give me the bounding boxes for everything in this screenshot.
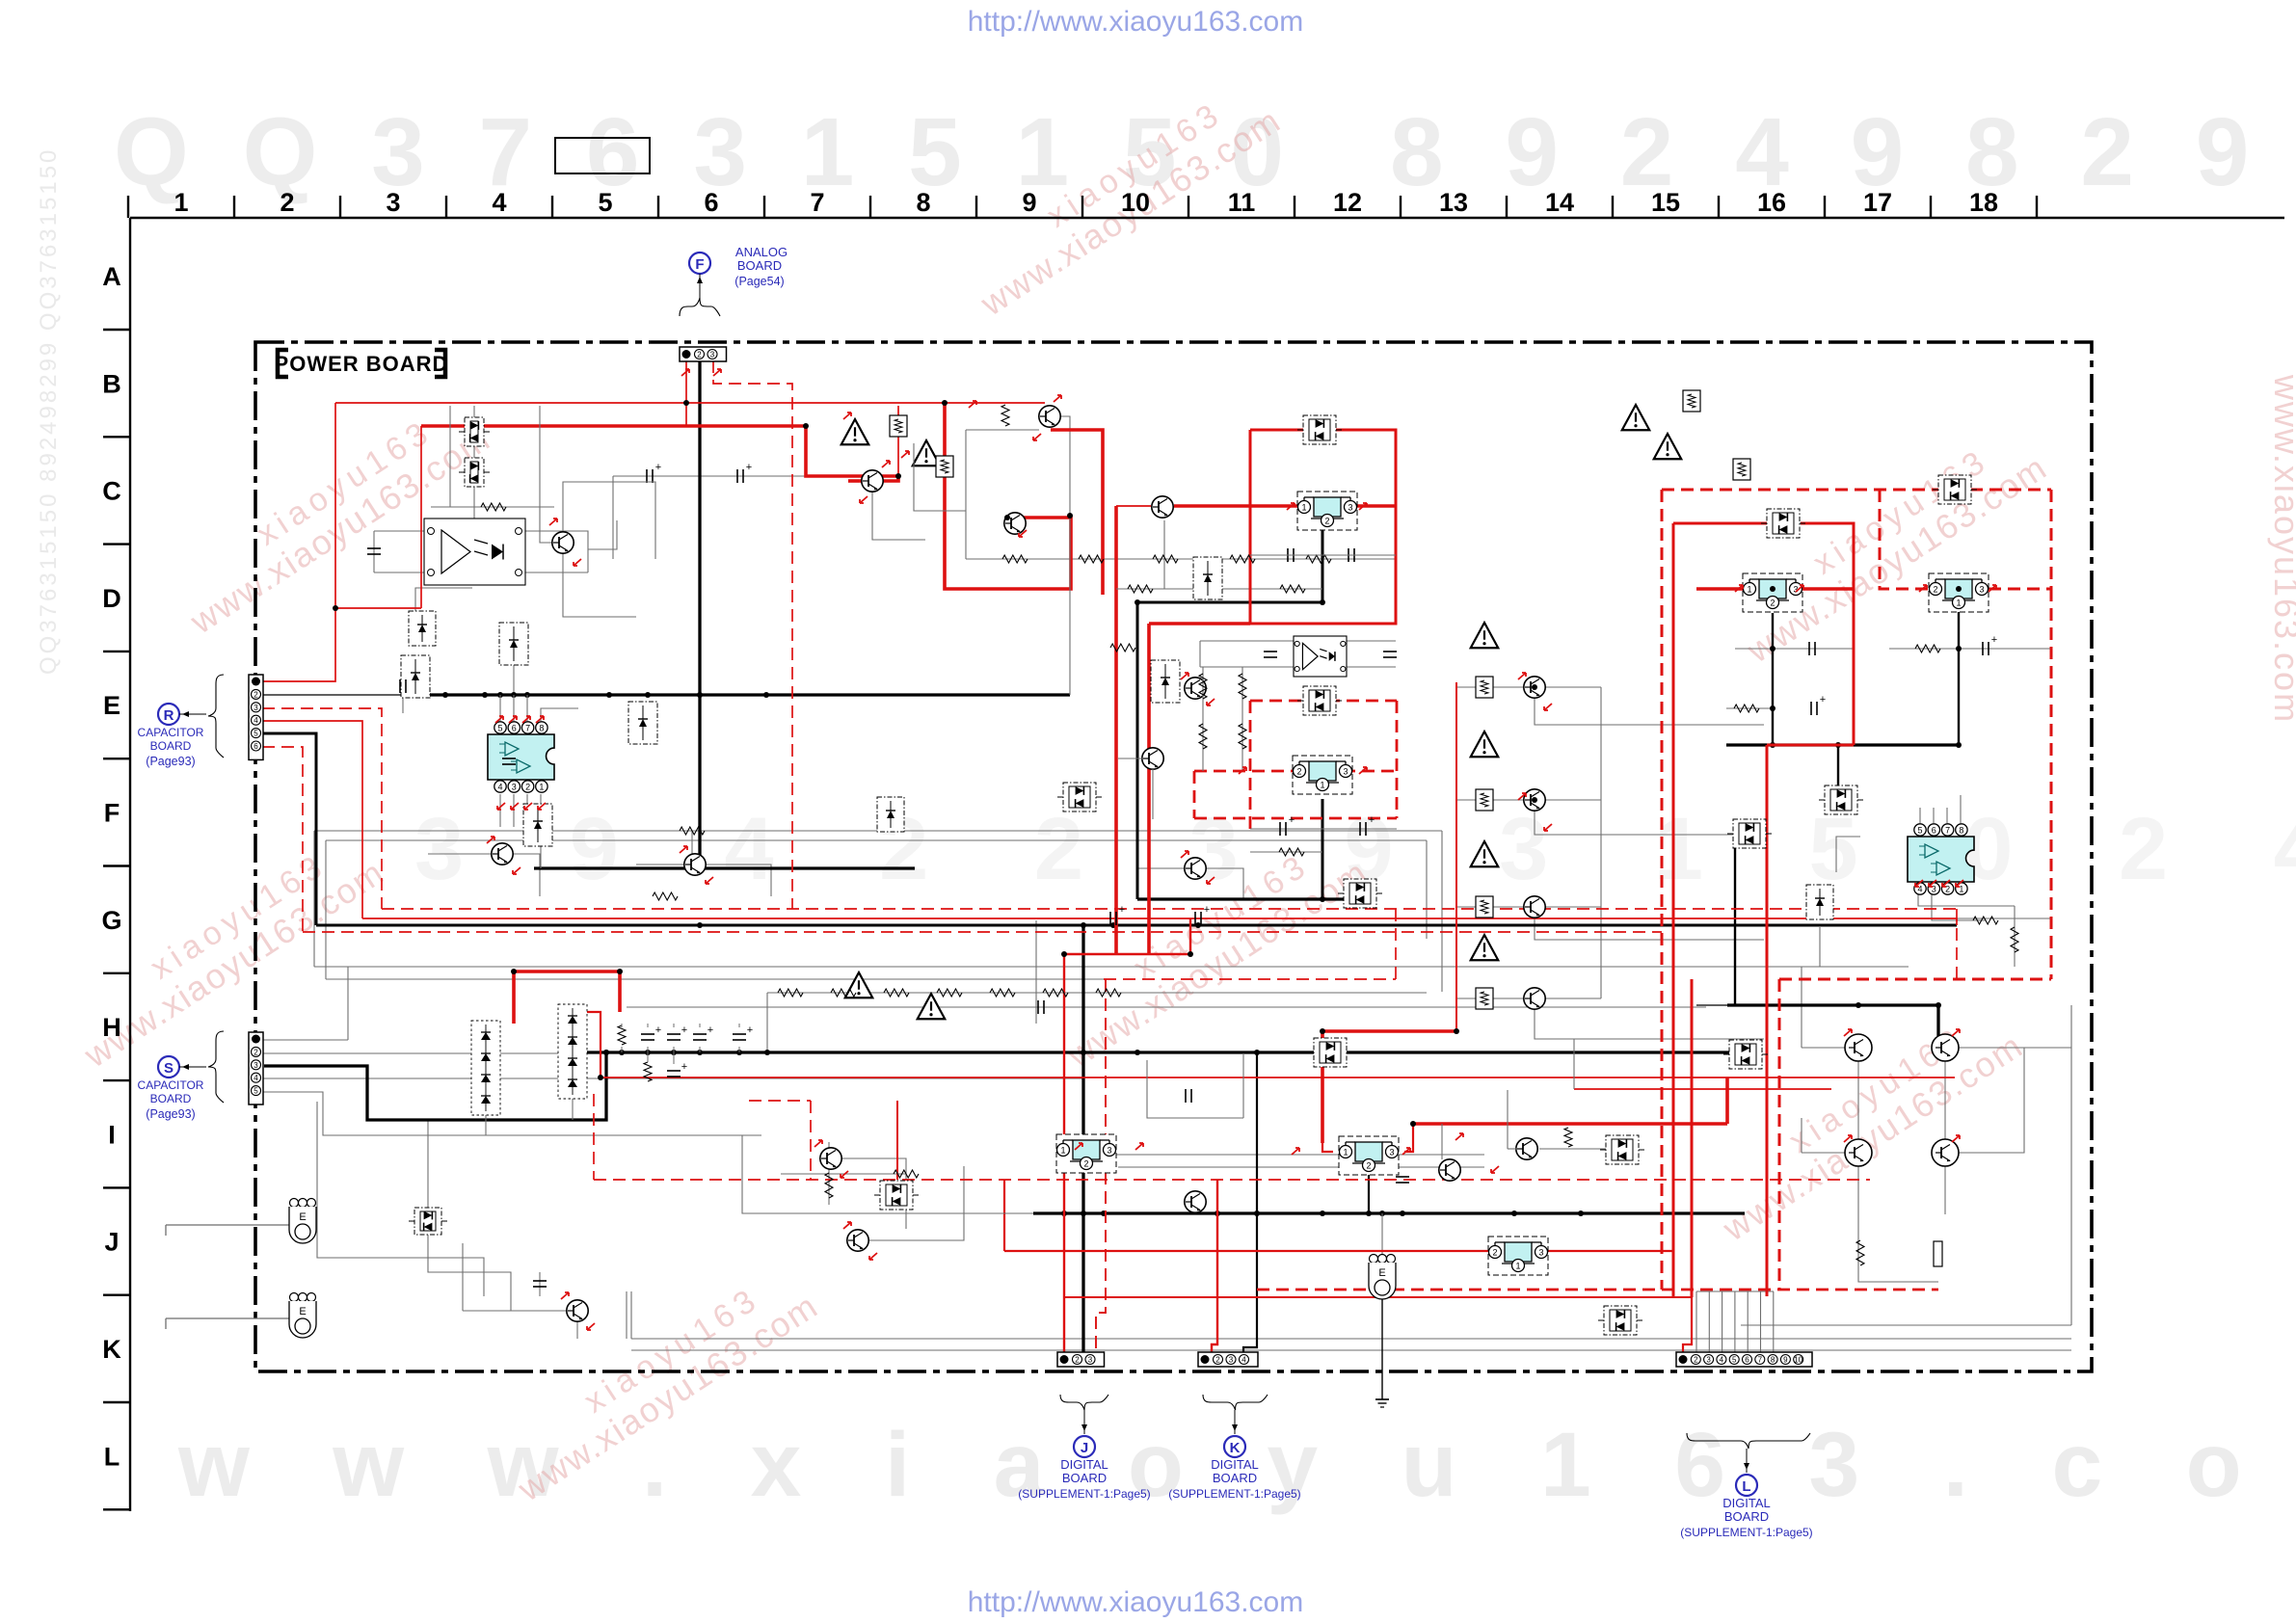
ic IC1 dual opamp [488,734,554,780]
svg-text:6: 6 [1932,826,1936,836]
wire res col a [1202,667,1204,771]
svg-text:2: 2 [1215,1356,1220,1365]
red box1 rect [1250,430,1396,624]
wire tr col emitter1 [1535,698,1764,725]
red G row thick steps [514,971,620,1024]
red column riser x1511 [1455,682,1457,1031]
wire R pin2 [262,694,418,696]
svg-text:3: 3 [512,783,517,792]
wire bl coil gnd 1 [165,1225,167,1236]
resistor R G4 [1239,724,1246,749]
svg-text:17: 17 [1863,188,1892,217]
resistor R IC2 b [1973,917,1998,924]
red solid x931 drop [896,1101,898,1180]
svg-text:2: 2 [1770,599,1775,608]
warning triangle W7 [1471,841,1499,866]
warning triangle W6 [1471,732,1499,757]
svg-text:6: 6 [704,188,718,217]
wire res row y526 [431,506,554,508]
red dashed reg4 right [1989,588,2051,591]
wire S pin4 [262,1078,1083,1079]
wire tr col emitter4 [1535,1009,1764,1039]
svg-text:1: 1 [539,783,544,792]
svg-text:8: 8 [1959,826,1963,836]
diode pair D10 right2 [1733,819,1766,848]
red x1192 drop [1147,624,1151,954]
red dashed reg2 right [1343,770,1397,773]
fusible resistor FR3 [1683,390,1700,412]
fusible resistor FR8 [1476,988,1493,1009]
zener Z3 [1806,885,1833,919]
red J riser [1064,918,1190,1353]
bus G row y933 [1137,897,1344,900]
wire opto2 rail top [1200,640,1294,642]
wire opto1 rail bottom [374,572,424,573]
transistor Q9b [1524,896,1545,918]
capacitor C reg3 735 [1810,702,1812,715]
wire I row bl trans base [463,1310,567,1312]
bridge rectifier BR2 [558,1004,587,1099]
bus K vertical [1243,1052,1257,1353]
wire mid trans pair2 [869,1166,964,1240]
transistor Q22 [1152,496,1173,518]
wire opto2 rail top2 [1347,640,1396,642]
transistor Q17 darlington [1439,1159,1460,1181]
diode pair D12 low mid [1606,1135,1639,1164]
svg-text:BOARD: BOARD [737,258,782,273]
row ruler line [129,218,131,1511]
diode pair D13 low mid2 [1604,1306,1637,1335]
bus right x1800 [1734,848,1736,1005]
bus REG3 pin2 drop [1772,613,1774,745]
regulator REG2 [1293,756,1352,794]
svg-text:3: 3 [1932,885,1936,894]
red right top y543b [1801,523,1854,745]
bus F pin2 vertical [698,360,701,868]
wire Q23 base [1118,758,1142,759]
row tick 1 [103,436,130,438]
wire res col b [1241,667,1243,771]
transistor Q16 [1185,1191,1206,1212]
red bridge2 link [587,1012,601,1076]
wire reg1 caps [1250,554,1396,556]
svg-text:2: 2 [1933,585,1937,595]
svg-text:2: 2 [1296,767,1301,777]
bus HB cap branch [1696,1004,1727,1006]
diode pair D4 reg row [1767,509,1800,538]
zener Z1 [409,611,436,646]
bridge rectifier BR1 [471,1021,500,1115]
svg-text:4: 4 [1720,1356,1724,1365]
resistor R y520 [481,503,506,511]
watermark pink e [1720,417,2054,671]
wire reg2 caps row [1250,828,1397,830]
wire transistor col join [1600,687,1602,998]
diode pair D5 top right [1938,475,1971,504]
coil T2 [290,1293,299,1302]
wire reg2 res row [1250,851,1322,853]
wire S1 loop top [347,967,349,1040]
fusible resistor FR5 [1476,677,1493,698]
svg-text:2: 2 [1945,885,1950,894]
bus H row y1092 [583,1051,1740,1053]
svg-text:11: 11 [1228,188,1256,217]
red main top line y418 [335,402,1045,404]
svg-text:8: 8 [1771,1356,1775,1365]
svg-text:B: B [102,369,121,398]
svg-text:1: 1 [1747,585,1751,595]
svg-text:F: F [104,799,120,828]
optocoupler PC2 [1294,636,1347,677]
red thick x836 drop [806,426,898,481]
H bus top row parts [618,1025,626,1045]
fusible resistor FR4 [1733,459,1750,480]
red mid reg pin1 [1322,1143,1333,1152]
svg-text:+: + [1204,904,1210,916]
bus E row y721 [418,693,1070,696]
power board label [278,350,288,377]
capacitor C E row2 [1383,651,1397,652]
wire opto1 left caps [373,531,375,572]
svg-text:I: I [108,1120,116,1149]
resistor R reg2 [1279,848,1304,856]
zener Z2 [877,797,904,832]
svg-text:1: 1 [174,188,188,217]
row tick 4 [103,758,130,759]
wire filler i [572,1099,574,1120]
red Q5 stub [848,479,863,483]
red J2 dashed riser [1096,979,1106,1353]
watermark pink h [2267,374,2296,724]
svg-text:5: 5 [497,724,502,733]
red box1 inner line [1322,416,1323,430]
wire HB base3v [1801,1118,1802,1153]
wire Q5 knot [872,492,925,540]
wire HB bottom [1741,1324,2071,1326]
red thin y1130 [1574,1088,1831,1090]
wire opto2 rail bot2 [1347,666,1396,668]
wire Q3 collector [563,482,636,533]
svg-text:BOARD: BOARD [1213,1471,1257,1485]
capacitor C opto1 a [367,547,381,549]
resistor R reg4 row [1915,645,1940,652]
svg-text:7: 7 [810,188,824,217]
resistor R HB [1856,1240,1864,1265]
coil T1 [290,1199,299,1208]
column tick 16 [1824,196,1826,218]
transistor Q12 [1516,1138,1537,1159]
svg-text:3: 3 [1107,1146,1111,1156]
capacitor C bundle a [1109,912,1111,925]
bus S pin3 thick [264,1052,606,1120]
wire Q22 emitter [1163,520,1165,589]
wire bl diode drop [427,1120,429,1208]
transistor Q15 [567,1300,588,1321]
watermark pink f [1695,996,2030,1249]
junction dots y1259 [1061,1211,1067,1216]
wire row y611 [1116,588,1322,590]
row tick 0 [103,329,130,331]
wire mid trans pair [842,1158,906,1229]
diode pair D2 [465,458,484,487]
red mid reg loop [1322,1029,1456,1033]
capacitor C reg1 b [1348,548,1349,562]
red L riser [1683,1297,1692,1357]
wire loop vertical x326 [313,831,315,967]
connector K [1198,1352,1258,1367]
wire S pin2 [262,1052,606,1054]
transistor Q9 [1524,677,1545,698]
resistor R IC2 a [2011,927,2018,952]
wire HB base2 [1956,1047,2071,1049]
wire caps row y494 [613,475,806,477]
red mid reg pin3 link [1404,1124,1413,1152]
red R pin4 drop [262,721,362,918]
wire opto2 caps stub a [1269,641,1271,667]
svg-text:http://www.xiaoyu163.com: http://www.xiaoyu163.com [968,1586,1304,1618]
wire tr col emitter2 [1535,811,1764,835]
svg-text:4: 4 [1917,885,1922,894]
svg-text:(SUPPLEMENT-1:Page5): (SUPPLEMENT-1:Page5) [1018,1487,1150,1501]
column tick 7 [869,196,871,218]
red bottom runs to J [1004,1250,1673,1252]
svg-text:L: L [104,1442,120,1471]
label S capacitor board [158,1056,179,1078]
svg-text:3: 3 [1389,1148,1394,1157]
svg-text:http://www.xiaoyu163.com: http://www.xiaoyu163.com [968,6,1304,38]
column tick 3 [445,196,447,218]
svg-text:3: 3 [386,188,400,217]
transistor Q1 [862,470,883,492]
wire bl diode bottom [428,1235,511,1311]
power board border [255,342,2092,1371]
wire braid x1075 [1035,920,1037,1024]
label F analog board [689,253,710,274]
connector R [249,675,263,759]
ic IC2 dual opamp [1908,837,1974,882]
wire diode chain bottom [473,487,475,520]
wire long bus y1003 [314,966,1909,968]
junction dots y1092 [603,1050,609,1055]
coil T3 [1370,1255,1378,1264]
red dashed x1239 [1193,771,1196,818]
transistor Q13 [820,1148,841,1169]
transistor Q6 [492,843,513,865]
svg-text:5: 5 [1732,1356,1737,1365]
capacitor C reg2 b [1359,822,1361,836]
capacitor C K [1185,1089,1187,1103]
svg-text:J: J [104,1228,119,1257]
wire right area y953 gray [1957,918,2051,919]
resistor R G1 [1199,674,1207,699]
svg-text:5: 5 [1917,826,1922,836]
transistor Q5 [1185,678,1206,699]
wire Q7 res top [691,831,693,854]
red dashed box2 top [1250,700,1397,703]
watermark pink d [1040,822,1375,1076]
svg-text:E: E [1378,1267,1385,1279]
red arrows [681,369,689,376]
svg-text:H: H [102,1013,121,1042]
mosfet M2 [499,623,528,665]
wire K2 rail [1118,1166,1484,1168]
wire long bus y1016 left [326,978,1104,980]
fusible resistor FR1 [890,415,907,437]
svg-text:1: 1 [1515,1262,1520,1271]
svg-text:S: S [164,1060,174,1077]
red dashed box2 left [1249,701,1252,829]
red bundle y953 solid [362,918,1957,919]
transistor Q21 hbridge [1932,1139,1959,1166]
row tick 8 [103,1186,130,1188]
svg-text:8 9 2 4 9 8 2 9 9: 8 9 2 4 9 8 2 9 9 [1390,98,2296,206]
watermark pink c [953,70,1288,324]
transistor Q3 [552,532,574,553]
capacitor C mid [502,758,516,759]
svg-text:3: 3 [1979,585,1984,595]
red bundle y943 dashed [382,908,1957,910]
capacitor C y494 b [736,469,738,483]
svg-text:+: + [681,1061,687,1073]
wire transistor col row4 [1456,998,1524,999]
wire I row mid resnet [781,1173,906,1175]
wire bottom rail b [631,1349,2071,1351]
svg-text:5: 5 [254,1087,258,1096]
warning triangle W1 [841,419,869,444]
svg-text:3: 3 [1706,1356,1711,1365]
diode pair D3 on red box [1303,415,1336,444]
resistor R base Q7 [653,892,678,900]
svg-text:D: D [102,584,121,613]
transistor Q19 hbridge [1932,1034,1959,1061]
svg-text:BOARD: BOARD [150,739,192,753]
column tick 10 [1188,196,1189,218]
column tick 11 [1294,196,1295,218]
row tick 9 [103,1293,130,1295]
regulator REG6 small [1056,1134,1116,1173]
fusible resistor FR7 [1476,896,1493,918]
red R pin1 riser [262,403,335,681]
red right top y543 [1673,522,1767,525]
wire I row mid resnet2 [828,1142,830,1205]
column tick 13 [1506,196,1508,218]
red reg3 right [1796,587,1854,591]
wire Q7 base [636,864,684,865]
wire E area caps [402,665,404,713]
wire filler f [1147,1060,1243,1118]
column tick 15 [1718,196,1720,218]
H bus below row parts [644,1062,652,1081]
ground below border [1381,1371,1383,1399]
wire Q4 emitter [1060,416,1070,482]
warning triangle W5 [1471,623,1499,648]
svg-text:9: 9 [1022,188,1036,217]
resistor R y611a [1128,585,1153,593]
svg-text:+: + [747,1024,753,1036]
wire diode chain top [473,406,475,417]
bus HB top y1043 [1727,1005,1938,1038]
wire H row Q8 base [1137,867,1184,869]
svg-text:+: + [707,1024,713,1036]
svg-text:A: A [102,262,121,291]
wire HB emit4 [1944,1163,1946,1214]
red R pin6 drop [262,747,303,932]
diode pair D8 [1063,783,1096,811]
svg-text:3: 3 [1088,1356,1093,1365]
wire opto2 rail bot [1200,666,1294,668]
svg-text:7: 7 [1758,1356,1763,1365]
wire bl coil line 1 [166,1224,290,1226]
wire loop G row b [326,839,1427,841]
svg-text:E: E [103,691,120,720]
svg-text:(Page54): (Page54) [734,275,784,288]
column ruler line [130,217,2284,219]
red right x1833 [1766,745,1769,1290]
resistor R y611b [1280,585,1305,593]
red big dashed box top [1662,489,2051,492]
label L digital board [1687,1433,1810,1449]
regulator REG1 [1297,492,1357,530]
wire braid x1564 [1507,1090,1508,1149]
svg-text:2: 2 [1694,1356,1698,1365]
wire E coil3 down [1381,1297,1383,1371]
resistor R mid1 [894,1170,919,1178]
wire bases bottom left [428,853,492,855]
svg-text:+: + [681,1024,687,1036]
red bundle right drop2 [1956,918,1958,925]
connector S [249,1032,263,1104]
svg-text:K: K [1230,1440,1241,1456]
label J digital board [1060,1395,1108,1410]
svg-text:CAPACITOR: CAPACITOR [138,1078,204,1092]
ic IC2 pin stubs [1919,808,1921,823]
watermark pink a [163,388,497,642]
wire HB res drop [1883,1282,1885,1325]
svg-text:9: 9 [1783,1356,1788,1365]
wire H row Q8 right [1207,868,1243,899]
svg-text:1: 1 [1320,781,1324,790]
svg-text:7: 7 [1945,826,1950,836]
wire loop G row a [314,830,1442,832]
svg-text:www.xiaoyu163.com: www.xiaoyu163.com [2267,374,2296,724]
wire x1110 drop to bus [1069,482,1071,695]
capacitor C bundle b [1194,912,1196,925]
wire J drop black mid [1223,1226,1225,1340]
wire K1 rail [1106,1154,1484,1156]
svg-text:5: 5 [254,730,258,738]
svg-text:+: + [655,1024,661,1036]
svg-text:3: 3 [254,1061,258,1070]
wire S pin1 [262,1039,348,1041]
transistor Q4 [1004,513,1026,534]
red Q5 loop [945,403,1071,589]
red dashed box bottom [1779,978,2051,981]
svg-text:6: 6 [512,724,517,733]
svg-text:F: F [695,256,704,273]
capacitor C x1455 [1396,1176,1409,1178]
red mid x1792 up [1725,1078,1729,1124]
red thick y442 [421,424,806,428]
wire G row long a [357,919,1083,921]
svg-text:3: 3 [710,351,715,359]
wire reg3 row y673 [1735,648,1854,650]
red R pin3 dashed [262,708,382,909]
svg-text:4: 4 [1241,1356,1246,1365]
wire transistor col row2 [1456,799,1524,801]
junction dots y721 [425,692,431,698]
wire L feed lines [1695,1291,1697,1359]
resistor R G3 [1239,674,1246,699]
